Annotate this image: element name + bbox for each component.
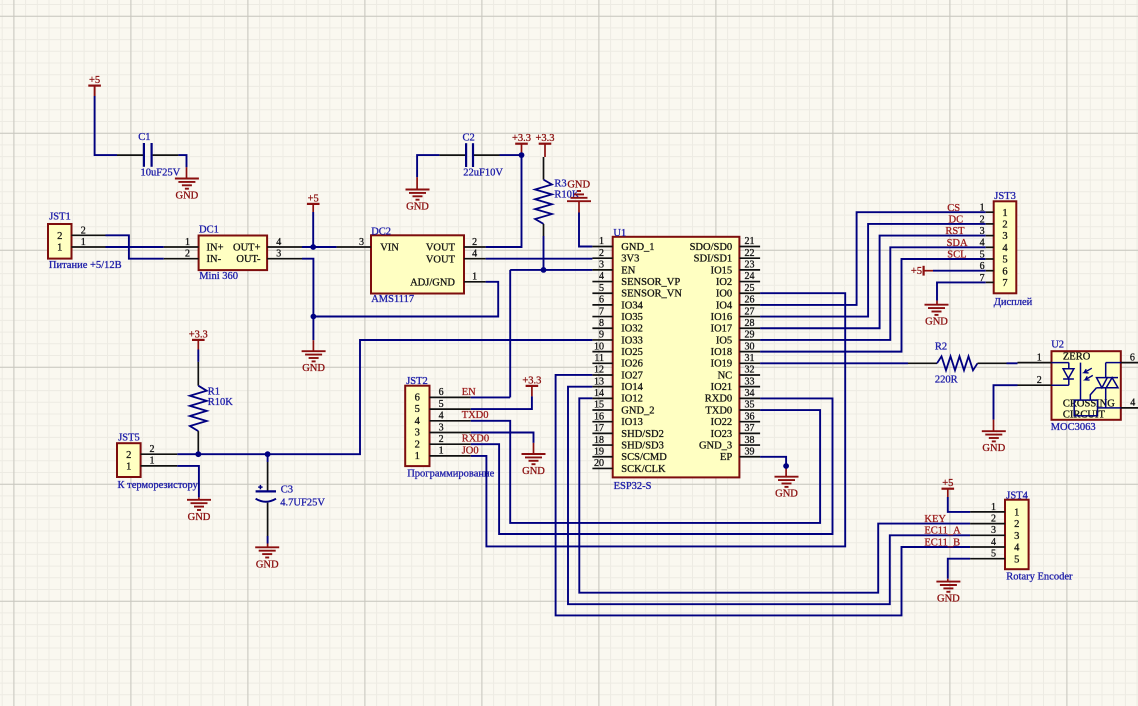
svg-text:32: 32 [745,365,755,376]
wire C2 left to ground [417,155,465,189]
svg-text:3: 3 [276,249,281,260]
svg-text:EN: EN [621,265,635,276]
svg-text:2: 2 [126,450,131,461]
capacitor C3 4.7UF25V (electrolytic) [256,454,326,508]
svg-text:U1: U1 [613,228,626,239]
svg-text:2: 2 [472,237,477,248]
connector JST4 Rotary Encoder [1005,491,1073,583]
pin U1.14 IO12 [592,388,642,405]
svg-text:4: 4 [1130,398,1135,409]
pin JST3.7 [980,273,994,284]
svg-text:GND: GND [256,559,279,570]
pin U2.2 [1018,375,1052,386]
pin JST1.2 [72,225,106,236]
pin U1.23 IO15 [711,260,760,277]
wire JST1.2 to DC1.2 [106,235,164,258]
svg-text:SENSOR_VP: SENSOR_VP [621,277,680,288]
wire C3 to ground [267,503,269,548]
svg-text:1: 1 [1014,508,1019,519]
wire U1.31 IO19 to R2 [760,362,908,364]
svg-text:OUT+: OUT+ [233,242,261,253]
pin U1.28 IO17 [711,318,760,335]
svg-text:29: 29 [745,330,755,341]
svg-text:IO16: IO16 [711,312,733,323]
wire thermistor net: JST5.2/R1/C3/U1.IO33 [177,340,592,454]
svg-text:2: 2 [1037,375,1042,386]
pin U1.33 IO21 [711,376,760,393]
pin U1.34 RXD0 [705,388,760,405]
svg-text:33: 33 [745,376,755,387]
pin U2.1 [1018,352,1052,363]
pin U1.11 IO26 [592,353,642,370]
svg-text:5: 5 [439,399,444,410]
connector JST3 Дисплей [994,191,1033,308]
regulator module DC1 Mini 360 [199,224,268,282]
svg-text:2: 2 [1014,519,1019,530]
svg-text:IO34: IO34 [621,300,643,311]
wire DC1.4 to DC2.3 [302,246,337,248]
svg-text:GND: GND [567,179,590,190]
svg-text:13: 13 [594,376,604,387]
pin DC2.4 VOUT [464,249,486,260]
svg-text:1: 1 [150,456,155,467]
wire U1.14 IO12 to JST4.2 KEY [579,398,970,592]
pin U1.39 EP [720,446,760,463]
pin DC1.3 OUT- [267,249,302,260]
svg-text:EC11_A: EC11_A [924,526,961,537]
pin JST5.2 [141,444,178,455]
resistor R1 R10K [190,362,233,453]
svg-text:2: 2 [1002,220,1007,231]
wire EN node: R3/U1.EN/JST2.6 [510,270,592,398]
svg-text:GND_2: GND_2 [621,405,654,416]
ground GND (JST2) [522,454,546,477]
svg-text:GND: GND [982,443,1005,454]
pin U1.36 IO22 [711,411,760,428]
svg-text:27: 27 [745,306,755,317]
pin JST4.2 [970,514,1005,525]
wire +5 to C1 left plate [95,96,143,155]
wire JST2.1 JO0 to U1.25 IO0 [471,293,845,546]
ground GND (JST4) [936,582,960,605]
svg-text:+5: +5 [89,75,100,86]
U2 internal LED [1052,363,1074,386]
regulator DC2 AMS1117 [371,226,464,304]
pin JST3.1 [980,203,994,214]
optocoupler U2 MOC3063 [1051,340,1121,433]
svg-text:4: 4 [1002,243,1008,254]
junction node EN [541,267,547,273]
svg-text:SCS/CMD: SCS/CMD [621,452,667,463]
svg-text:11: 11 [594,353,604,364]
svg-text:OUT-: OUT- [236,254,261,265]
pin U1.4 SENSOR_VP [592,271,680,288]
pin U1.10 IO25 [592,341,642,358]
svg-text:R10K: R10K [208,397,234,408]
svg-text:4: 4 [1014,543,1020,554]
pin U1.27 IO16 [711,306,760,323]
pin U1.8 IO32 [592,318,642,335]
wire JST1.1 to DC1.1 [106,246,164,248]
svg-text:6: 6 [415,393,420,404]
pin U1.2 3V3 [592,248,639,265]
ground GND (C1) [175,179,199,202]
svg-text:10: 10 [594,341,604,352]
svg-text:3: 3 [1014,531,1019,542]
svg-text:31: 31 [745,353,755,364]
ground GND (inverted, U1 GND_1) [567,179,591,212]
ground GND (JST5) [187,500,211,523]
svg-text:IN-: IN- [207,254,222,265]
svg-text:GND_3: GND_3 [699,440,732,451]
svg-text:IO18: IO18 [711,347,733,358]
wire DC2.2 VOUT to +3.3 node [486,155,522,247]
pin JST2.6 [430,387,471,398]
svg-text:Питание +5/12В: Питание +5/12В [49,260,122,271]
svg-text:Программирование: Программирование [407,468,494,479]
svg-text:CIRCUIT: CIRCUIT [1063,410,1106,421]
svg-text:IO12: IO12 [621,394,643,405]
pin JST2.2 [430,434,471,445]
pin JST4.4 [970,537,1005,548]
svg-text:R1: R1 [208,387,220,398]
svg-text:3: 3 [599,260,604,271]
svg-text:26: 26 [745,295,755,306]
svg-text:JST4: JST4 [1006,491,1028,502]
svg-text:3: 3 [1002,231,1007,242]
wire C2 right to +3.3 node [474,154,522,156]
svg-text:16: 16 [594,411,604,422]
pin U1.12 IO27 [592,365,642,382]
wire U1.26 IO4 to JST3.1 CS [760,212,986,305]
pin U1.38 GND_3 [699,435,760,452]
pin DC1.2 IN- [164,249,199,260]
svg-text:28: 28 [745,318,755,329]
svg-text:К терморезистору: К терморезистору [118,480,199,491]
wire U1.27 IO16 to JST3.2 DC [760,224,986,317]
wire JST2.5 to +3.3 [471,396,532,409]
pin JST3.3 [980,226,994,237]
svg-text:TXD0: TXD0 [705,405,732,416]
svg-text:4: 4 [276,237,281,248]
svg-text:JST5: JST5 [118,433,140,444]
svg-text:EC11_B: EC11_B [924,537,960,548]
svg-text:9: 9 [599,330,604,341]
pin DC1.1 IN+ [164,237,199,248]
svg-text:5: 5 [415,404,420,415]
svg-text:12: 12 [594,365,604,376]
pin U2.4 [1121,398,1138,409]
svg-text:4.7UF25V: 4.7UF25V [280,498,325,509]
svg-text:IO14: IO14 [621,382,643,393]
svg-text:R2: R2 [935,342,947,353]
svg-text:SENSOR_VN: SENSOR_VN [621,289,682,300]
svg-text:SCK/CLK: SCK/CLK [621,464,666,475]
resistor R2 220R [908,342,1007,386]
svg-text:GND: GND [302,363,325,374]
junction node +3.3/C2 [519,152,525,158]
svg-text:VIN: VIN [380,243,399,254]
svg-text:Rotary Encoder: Rotary Encoder [1006,572,1073,583]
wire U1.30 IO18 to JST3.5 SCL [760,259,986,352]
wire JST2.2 RXD0 to U1.34 [471,398,833,534]
svg-text:18: 18 [594,435,604,446]
svg-text:+5: +5 [911,266,922,277]
junction node OUT-/ADJ [311,314,317,320]
pin U1.21 SDO/SD0 [690,236,761,253]
capacitor C1 10uF25V [138,132,180,178]
svg-text:3: 3 [991,525,996,536]
svg-text:1: 1 [126,462,131,473]
svg-text:220R: 220R [935,375,958,386]
pin U1.3 EN [592,260,635,277]
svg-text:34: 34 [745,388,755,399]
pin JST4.3 [970,525,1005,536]
svg-text:GND: GND [937,594,960,605]
svg-text:VOUT: VOUT [426,243,456,254]
svg-text:SDI/SD1: SDI/SD1 [694,254,733,265]
svg-text:C2: C2 [463,132,475,143]
pin JST3.2 [980,214,994,225]
svg-text:10uF25V: 10uF25V [141,167,181,178]
wire R3 bottom to EN node [543,236,545,270]
pin U1.16 IO13 [592,411,642,428]
svg-text:14: 14 [594,388,604,399]
svg-text:IO0: IO0 [716,289,732,300]
svg-text:JO0: JO0 [462,445,479,456]
svg-text:2: 2 [415,439,420,450]
svg-text:2: 2 [599,248,604,259]
svg-text:C3: C3 [281,484,293,495]
pin JST2.4 [430,411,471,422]
ground GND (JST3) [925,305,949,328]
wire node to ground [312,317,314,352]
svg-text:1: 1 [1002,208,1007,219]
wire ground to U1 GND_1 [579,213,592,247]
svg-text:1: 1 [1037,352,1042,363]
pin U1.37 IO23 [711,423,760,440]
wire +3.3 to R1 [197,350,199,362]
svg-text:GND: GND [176,191,199,202]
svg-text:22uF10V: 22uF10V [463,167,503,178]
svg-text:30: 30 [745,341,755,352]
wire C1 right plate to ground [153,155,187,178]
svg-text:8: 8 [599,318,604,329]
wire U1.39 EP to ground [760,457,786,477]
svg-text:U2: U2 [1051,340,1064,351]
pin U1.6 IO34 [592,295,643,312]
wire +5 to JST3.6 [933,270,986,272]
pin JST5.1 [141,456,178,467]
U2 internal zero-crossing block [1074,363,1121,416]
pin U1.24 IO2 [716,271,760,288]
svg-text:+3.3: +3.3 [512,133,531,144]
svg-text:2: 2 [81,225,86,236]
svg-text:KEY: KEY [924,514,946,525]
svg-text:NC: NC [718,370,733,381]
junction node C3/thermistor [265,451,271,457]
svg-text:IO5: IO5 [716,335,732,346]
pin DC1.4 OUT+ [267,237,302,248]
pin U1.31 IO19 [711,353,760,370]
pin U1.18 SHD/SD3 [592,435,664,452]
U2 internal triac [1090,363,1121,408]
svg-text:IO25: IO25 [621,347,643,358]
ground GND (EP) [775,477,799,500]
svg-text:3: 3 [359,237,364,248]
wire U1.28 IO17 to JST3.3 RST [760,236,986,329]
wire JST4.5 to ground [948,559,970,582]
wire JST2.4 TXD0 to U1.35 [471,410,820,523]
svg-text:GND: GND [188,512,211,523]
wire JST3.7 to ground [937,282,986,304]
svg-text:SHD/SD2: SHD/SD2 [621,429,664,440]
svg-text:1: 1 [472,272,477,283]
svg-text:1: 1 [980,203,985,214]
svg-text:5: 5 [1002,255,1007,266]
svg-text:Дисплей: Дисплей [994,297,1033,308]
svg-text:4: 4 [439,411,444,422]
svg-text:1: 1 [991,502,996,513]
svg-text:23: 23 [745,260,755,271]
svg-text:17: 17 [594,423,604,434]
pin JST3.6 [980,261,994,272]
svg-text:RXD0: RXD0 [705,394,732,405]
svg-text:2: 2 [57,231,62,242]
svg-text:TXD0: TXD0 [462,410,489,421]
svg-text:19: 19 [594,446,604,457]
pin JST2.3 [430,422,471,433]
svg-text:+3.3: +3.3 [522,375,541,386]
svg-text:1: 1 [415,451,420,462]
svg-text:IO13: IO13 [621,417,643,428]
svg-text:5: 5 [991,549,996,560]
svg-text:GND: GND [406,202,429,213]
svg-text:IO22: IO22 [711,417,733,428]
svg-text:6: 6 [439,387,444,398]
pin JST4.5 [970,549,1005,560]
svg-text:4: 4 [980,238,985,249]
capacitor C2 22uF10V [463,132,504,178]
connector JST1 Питание +5/12В [48,212,122,271]
svg-text:2: 2 [980,214,985,225]
svg-text:2: 2 [150,444,155,455]
power port +3.3 (JST2.5) [522,375,541,396]
power port +5 (JST4) [942,478,955,497]
pin DC2.3 VIN [337,237,371,248]
junction node EP/GND [783,463,789,469]
connector JST5 К терморезистору [117,433,199,491]
wire U2.2 to ground [994,385,1018,431]
svg-text:DC1: DC1 [199,224,219,235]
pin DC2.1 ADJ/GND [464,272,486,283]
pin JST2.5 [430,399,471,410]
pin U1.5 SENSOR_VN [592,283,682,300]
svg-text:3V3: 3V3 [621,254,639,265]
pin U1.26 IO4 [716,295,760,312]
wire DC2.4 VOUT to U1 3V3 [486,258,593,260]
svg-text:IN+: IN+ [207,242,224,253]
power port +5 (C1 branch) [88,75,101,96]
pin JST2.1 [430,446,471,457]
power port +3.3 (R1) [189,329,208,349]
svg-text:15: 15 [594,400,604,411]
resistor R3 R10K [535,157,580,236]
wire U1.29 IO5 to JST3.4 SDA [760,247,986,340]
svg-text:IO21: IO21 [711,382,733,393]
svg-text:21: 21 [745,236,755,247]
svg-text:SDA: SDA [947,238,968,249]
svg-text:R3: R3 [554,178,566,189]
svg-text:Mini 360: Mini 360 [199,271,238,282]
svg-text:1: 1 [185,237,190,248]
pin U1.19 SCS/CMD [592,446,667,463]
svg-text:IO33: IO33 [621,335,643,346]
svg-text:4: 4 [991,537,996,548]
svg-text:ESP32-S: ESP32-S [614,481,652,492]
svg-text:20: 20 [594,458,604,469]
svg-text:1: 1 [439,446,444,457]
pin JST1.1 [72,237,106,248]
ground GND (C3) [255,547,279,570]
svg-text:4: 4 [415,416,421,427]
connector JST2 Программирование [405,376,494,479]
svg-text:IO27: IO27 [621,370,643,381]
svg-text:RXD0: RXD0 [462,434,489,445]
svg-text:VOUT: VOUT [426,254,456,265]
svg-text:37: 37 [745,423,755,434]
svg-text:+5: +5 [942,478,953,489]
svg-text:4: 4 [472,249,477,260]
svg-text:AMS1117: AMS1117 [371,294,414,305]
power port +3.3 (R3) [535,133,554,157]
wire JST2.3 to ground [471,433,534,455]
pin DC2.2 VOUT [464,237,486,248]
svg-text:JST1: JST1 [49,212,71,223]
svg-text:IO23: IO23 [711,429,733,440]
svg-text:24: 24 [745,271,755,282]
wire DC2.1 ADJ/GND to ground node [313,282,498,317]
svg-text:IO4: IO4 [716,300,733,311]
svg-text:5: 5 [1014,554,1019,565]
svg-text:SCL: SCL [947,250,966,261]
svg-text:39: 39 [745,446,755,457]
svg-text:SDO/SD0: SDO/SD0 [690,242,733,253]
svg-text:3: 3 [439,422,444,433]
svg-text:IO35: IO35 [621,312,643,323]
wire DC1.3 OUT- down to ground node [302,259,313,317]
svg-text:+3.3: +3.3 [189,329,208,340]
power port +3.3 (C2 node) [512,133,531,155]
U2 internal light arrows [1084,368,1093,380]
svg-text:5: 5 [599,283,604,294]
junction node +5/OUT+ [310,244,316,250]
svg-text:MOC3063: MOC3063 [1051,422,1096,433]
IC U1 ESP32-S [613,228,740,492]
wire JST2.6 EN [471,396,510,398]
svg-text:3: 3 [980,226,985,237]
svg-text:7: 7 [599,306,604,317]
wire JST5.1 to ground [177,466,199,500]
svg-text:IO2: IO2 [716,277,732,288]
pin JST3.4 [980,238,994,249]
pin U1.22 SDI/SD1 [694,248,760,265]
pin U2.6 [1121,352,1138,363]
svg-text:3: 3 [415,428,420,439]
svg-text:36: 36 [745,411,755,422]
svg-text:6: 6 [599,295,604,306]
ground GND (DC1) [302,351,326,374]
